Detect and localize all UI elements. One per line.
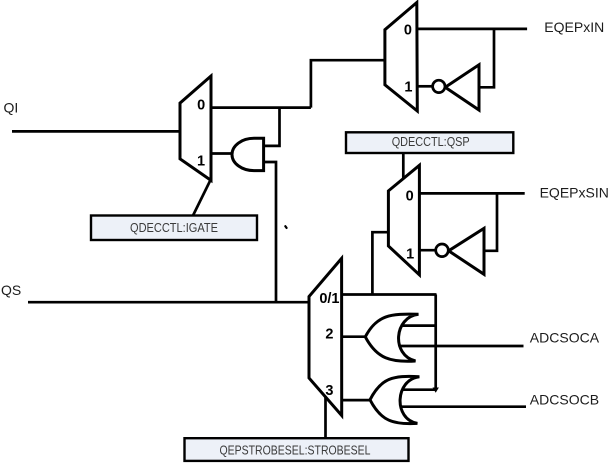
label box QDECCTL:QSP xyxy=(346,132,513,153)
wire select U4 to STROBESEL box xyxy=(324,396,327,438)
label box QEPSTROBESEL:STROBESEL xyxy=(185,438,409,461)
svg-text:EQEPxIN: EQEPxIN xyxy=(544,19,604,35)
wire inverter INV1 output to U2 pin 1 xyxy=(417,85,433,88)
wire OR2 upper branch xyxy=(401,388,435,391)
wire AND gate bottom input from QS xyxy=(264,162,276,302)
wire QI mux 0-row output xyxy=(211,106,311,109)
svg-text:QI: QI xyxy=(4,100,19,116)
svg-text:2: 2 xyxy=(325,326,333,342)
OR gate G2 (ADCSOCA) xyxy=(365,314,418,361)
inverter INV2 triangle xyxy=(449,228,484,274)
wire U3 output to EQEPxSIN xyxy=(419,192,524,195)
svg-text:QDECCTL:IGATE: QDECCTL:IGATE xyxy=(130,221,218,235)
wire AND gate top input tap xyxy=(264,108,280,146)
wire up to top mux input xyxy=(311,60,385,107)
wire select QSP box to mux U3 xyxy=(402,153,405,179)
junction arrowhead at OR2 branch xyxy=(433,388,439,393)
stray ink mark artifact xyxy=(285,226,286,228)
svg-text:QDECCTL:QSP: QDECCTL:QSP xyxy=(392,135,470,149)
svg-text:QS: QS xyxy=(1,282,21,298)
wire select U1 to IGATE box xyxy=(193,181,210,216)
wire QS input line xyxy=(28,301,310,304)
wire feedback from EQEPxIN into inverter INV1 xyxy=(480,29,495,87)
wire tap up to mux U3 input xyxy=(372,232,388,294)
mux U1 QI gating xyxy=(180,76,211,180)
svg-text:0: 0 xyxy=(404,22,412,38)
svg-text:1: 1 xyxy=(406,247,414,263)
inverter INV1 triangle xyxy=(445,65,479,110)
svg-text:EQEPxSIN: EQEPxSIN xyxy=(540,185,609,201)
wire ADCSOCB output line xyxy=(400,405,526,408)
svg-text:1: 1 xyxy=(197,153,205,169)
wire OR1 upper branch xyxy=(400,324,436,327)
svg-text:ADCSOCB: ADCSOCB xyxy=(530,391,599,407)
inverter INV2 bubble xyxy=(436,244,449,257)
svg-text:0/1: 0/1 xyxy=(319,291,339,307)
svg-text:ADCSOCA: ADCSOCA xyxy=(530,330,600,346)
label box QDECCTL:IGATE xyxy=(91,216,257,241)
wire ADCSOCA output line xyxy=(399,345,524,348)
svg-text:3: 3 xyxy=(325,383,333,399)
wire QI input line xyxy=(12,130,180,133)
wire U4 2-row to OR1 xyxy=(341,335,365,338)
OR gate G3 (ADCSOCB) xyxy=(370,376,419,423)
wire U4 3-row to OR2 xyxy=(341,399,370,402)
svg-text:0: 0 xyxy=(406,189,414,205)
mux U3 EQEPxSIN polarity xyxy=(388,165,419,274)
mux U4 strobe select xyxy=(309,258,342,415)
wire 0/1-row to strobe logic xyxy=(341,293,436,296)
mux U2 EQEPxIN polarity xyxy=(385,3,417,112)
svg-text:QEPSTROBESEL:STROBESEL: QEPSTROBESEL:STROBESEL xyxy=(220,443,371,457)
wire vertical 0/1 branch down to OR2 xyxy=(434,295,437,389)
wire inverter INV2 output to U3 pin 1 xyxy=(419,249,435,252)
svg-text:1: 1 xyxy=(404,80,412,96)
wire U2 output to EQEPxIN xyxy=(417,28,527,31)
wire AND gate output to mux pin 1 xyxy=(211,152,233,155)
AND gate G1 xyxy=(232,138,264,170)
inverter INV1 bubble xyxy=(433,80,445,92)
wire feedback from EQEPxSIN into inverter INV2 xyxy=(484,193,497,250)
svg-text:0: 0 xyxy=(197,98,205,114)
